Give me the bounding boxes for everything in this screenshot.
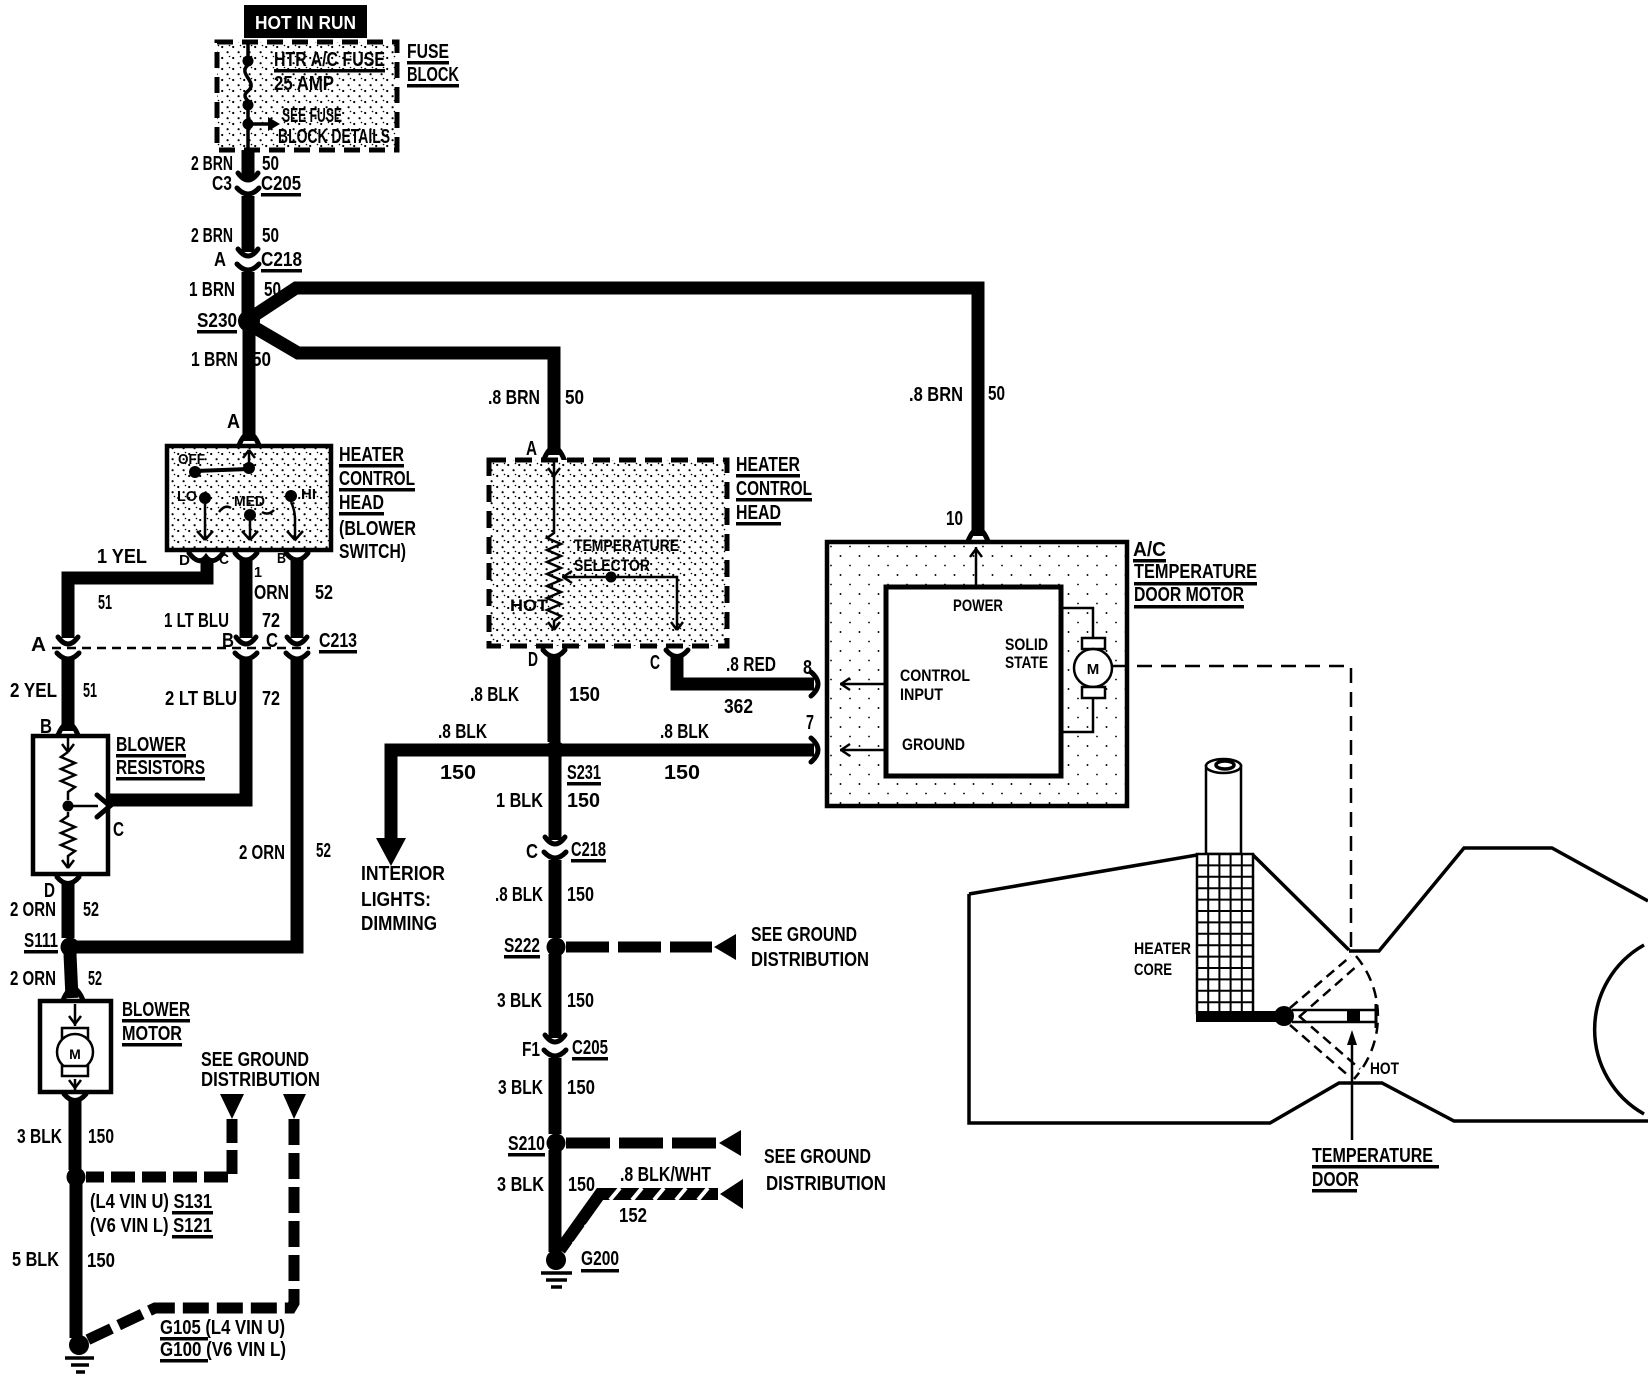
blower switch terminal B cup [277,550,308,567]
svg-text:SEE GROUND: SEE GROUND [201,1049,309,1071]
svg-text:A: A [227,411,240,433]
interior lights dimming arrow [361,838,445,935]
svg-text:51: 51 [83,680,97,702]
wire 1 BLK 150 (S231 to C218) [496,757,600,840]
blower opening arc (right) [1595,945,1644,1114]
svg-text:C205: C205 [572,1037,608,1059]
svg-text:C218: C218 [261,249,302,271]
svg-text:MOTOR: MOTOR [122,1023,182,1045]
HOT position arrow [1347,1030,1399,1140]
dashed ground wire (right arrow to G105/G100) [85,1119,294,1341]
svg-text:BLOCK: BLOCK [407,64,459,86]
svg-text:.8 BLK: .8 BLK [495,884,543,906]
svg-text:2 ORN: 2 ORN [239,842,285,864]
off-page arrow triangle (right) [283,1094,306,1119]
wire 3 BLK 150 (S222 to C205) [497,954,594,1038]
door motor M [1061,608,1112,732]
splice S222 [504,935,566,959]
wire .8 BLK 150 (S231 to interior lights dimming) [391,721,548,838]
svg-text:C218: C218 [571,839,606,861]
wire 3 BLK 150 (motor to S131/S121 junction) [17,1101,114,1170]
wire 52 (switch B to C213 C) [297,560,333,638]
svg-text:7: 7 [806,712,814,734]
svg-text:8: 8 [803,657,812,679]
svg-text:HOT: HOT [1370,1059,1399,1078]
svg-text:B: B [277,550,286,567]
svg-text:150: 150 [568,1174,595,1196]
svg-text:2 YEL: 2 YEL [10,680,57,702]
temperature selector resistor [510,462,679,630]
connector C205 pin F1 [522,1035,608,1061]
svg-text:C205: C205 [261,173,301,195]
svg-text:1 BLK: 1 BLK [496,790,543,812]
svg-text:150: 150 [664,762,700,784]
svg-text:A: A [526,438,537,460]
svg-text:SWITCH): SWITCH) [339,541,406,563]
ground G105/G100 [65,1317,286,1372]
wire .8 BLK 150 (C218 to S222) [495,860,594,938]
svg-text:1 YEL: 1 YEL [97,546,147,568]
wire 1 YEL 51 (switch D/C to C213 A) [31,546,207,656]
wire .8 BRN 50 branch to A/C temperature door motor [252,288,1005,544]
svg-text:25 AMP: 25 AMP [274,73,334,95]
temperature door open positions (dashed) [1290,956,1360,1077]
svg-text:50: 50 [565,387,584,409]
svg-text:2 BRN: 2 BRN [191,225,233,247]
svg-text:INTERIOR: INTERIOR [361,863,445,885]
temperature selector callout label [736,454,812,526]
svg-text:S230: S230 [197,310,237,332]
svg-text:3 BLK: 3 BLK [17,1126,62,1148]
heater core grid [1134,854,1253,1013]
svg-text:G200: G200 [581,1248,619,1270]
svg-text:DISTRIBUTION: DISTRIBUTION [751,949,869,971]
heater control head (temperature selector) dashed box [489,460,727,646]
wire 5 BLK 150 (junction to ground) [12,1184,115,1338]
heater core base bar [1196,1011,1286,1022]
svg-text:.8 BLK: .8 BLK [438,721,487,743]
A/C temperature door motor callout label [1133,539,1257,609]
fuse block callout label [407,41,459,88]
svg-text:BLOCK DETAILS: BLOCK DETAILS [278,126,390,148]
svg-text:C: C [113,819,124,841]
svg-text:C: C [266,630,278,652]
wire .8 BRN 50 branch to heater control head (temp selector) [252,326,584,462]
splice S210 [508,1133,566,1157]
blower resistors box [33,734,205,874]
svg-text:CONTROL: CONTROL [339,468,415,490]
dashed ground wire from S210 [566,1130,886,1195]
svg-text:SEE GROUND: SEE GROUND [764,1146,871,1168]
dashed ground wire (junction to left arrow) [86,1119,232,1177]
svg-text:CONTROL: CONTROL [900,666,970,685]
svg-text:DISTRIBUTION: DISTRIBUTION [201,1069,320,1091]
svg-text:5 BLK: 5 BLK [12,1249,59,1271]
svg-text:HEAD: HEAD [339,492,384,514]
svg-text:150: 150 [567,990,594,1012]
door swing arc [1354,956,1378,1079]
svg-text:52: 52 [316,840,331,862]
svg-text:M: M [69,1046,81,1062]
svg-text:HI: HI [301,486,316,503]
svg-text:3 BLK: 3 BLK [497,990,542,1012]
svg-text:D: D [528,649,538,671]
svg-text:152: 152 [619,1205,647,1227]
svg-text:50: 50 [262,153,279,175]
wire 2 ORN 52 (resistors D to S111) [10,884,99,938]
svg-text:1 LT BLU: 1 LT BLU [164,610,229,632]
svg-text:MED: MED [234,493,265,510]
svg-text:A/C: A/C [1133,539,1166,561]
pin 7 internal lead [840,744,886,756]
blower resistors elements [61,738,124,868]
blower switch (heater control head) box [167,446,331,550]
svg-text:C: C [219,551,229,568]
svg-text:G105 (L4 VIN U): G105 (L4 VIN U) [160,1317,285,1339]
splice S111 [24,930,80,957]
svg-text:150: 150 [567,1077,595,1099]
svg-text:HEATER: HEATER [1134,939,1191,958]
svg-text:CORE: CORE [1134,960,1172,979]
svg-text:72: 72 [262,688,280,710]
svg-text:150: 150 [567,790,600,812]
wire .8 BLK 150 (S231 to A/C motor pin 7) [562,712,818,784]
svg-text:362: 362 [724,696,753,718]
svg-text:TEMPERATURE: TEMPERATURE [574,536,679,555]
svg-text:2 LT BLU: 2 LT BLU [165,688,237,710]
see ground distribution labels (blower motor area) [201,1049,320,1091]
connector C213 row [52,630,357,659]
ground G200 [541,1248,619,1287]
svg-text:C: C [526,841,538,863]
svg-text:HOT: HOT [510,596,549,615]
svg-text:POWER: POWER [953,596,1003,615]
blower resistors terminal D cup [44,877,79,902]
wire 1 BRN 50 (S230 to blower switch) [191,324,271,448]
blower motor M symbol [57,1004,93,1090]
fuse block interior text [274,49,390,148]
splice S230 [197,310,260,334]
svg-text:C: C [650,652,660,674]
temperature selector wiper [562,571,683,630]
wire 2 BRN 50 (C205 to C218) [191,196,279,252]
fuse block box [217,42,397,150]
svg-text:LO: LO [177,488,197,505]
wire .8 RED 362 (to A/C motor pin 8) [677,654,818,718]
wire .8 BLK 150 (temp selector D to S231) [470,656,600,742]
svg-text:.8 BRN: .8 BRN [488,387,540,409]
wire 3 BLK 150 (S210 to G200) [497,1150,595,1252]
svg-text:GROUND: GROUND [902,735,965,754]
power feed label HOT IN RUN [244,5,367,38]
svg-text:(L4 VIN U) S131: (L4 VIN U) S131 [90,1191,212,1213]
svg-text:51: 51 [98,592,112,614]
off-page arrow triangle (left) [220,1094,244,1119]
dashed mechanical link (motor to temperature door) [1113,666,1351,948]
svg-text:TEMPERATURE: TEMPERATURE [1312,1145,1433,1167]
connector C218 pin A [214,249,302,273]
wire .8 BLK/WHT 152 (striped) [560,1164,743,1250]
wire 3 BLK 150 (C205 to S210) [498,1058,595,1134]
svg-text:S231: S231 [567,762,601,784]
svg-text:A: A [31,634,46,656]
svg-text:F1: F1 [522,1039,540,1061]
svg-text:HEATER: HEATER [736,454,800,476]
svg-text:S222: S222 [504,935,540,957]
svg-text:DOOR: DOOR [1312,1169,1359,1191]
svg-text:S111: S111 [24,930,58,952]
svg-text:HTR A/C FUSE: HTR A/C FUSE [274,49,385,71]
svg-text:TEMPERATURE: TEMPERATURE [1134,561,1257,583]
svg-text:50: 50 [252,349,271,371]
svg-text:S210: S210 [508,1133,545,1155]
svg-text:CONTROL: CONTROL [736,478,812,500]
svg-text:D: D [179,552,190,569]
svg-text:150: 150 [88,1126,114,1148]
wire 2 ORN 52 (C213 C down to S111) [74,660,331,947]
svg-text:FUSE: FUSE [407,41,449,63]
svg-text:52: 52 [83,899,99,921]
see-fuse-details arrow [250,117,280,131]
heater plenum left chamber outline [969,848,1648,1123]
svg-text:2 BRN: 2 BRN [191,153,233,175]
svg-text:(BLOWER: (BLOWER [339,518,416,540]
svg-text:DIMMING: DIMMING [361,913,437,935]
svg-text:50: 50 [988,383,1005,405]
fuse F HTR A/C 25A [243,44,254,150]
temperature selector terminal C cup [650,650,688,674]
splice S131/S121 junction [67,1168,214,1239]
svg-text:.8 BLK: .8 BLK [660,721,709,743]
svg-text:INPUT: INPUT [900,685,944,704]
svg-text:.8 BLK: .8 BLK [470,684,519,706]
svg-text:150: 150 [567,884,594,906]
svg-text:72: 72 [262,610,280,632]
svg-text:3 BLK: 3 BLK [497,1174,544,1196]
svg-text:1 BRN: 1 BRN [191,349,238,371]
A/C temperature door motor box [827,542,1127,806]
svg-text:2 ORN: 2 ORN [10,899,56,921]
svg-text:.8 BLK/WHT: .8 BLK/WHT [620,1164,711,1186]
blower switch contacts OFF LO MED HI [177,450,316,540]
svg-text:52: 52 [315,582,333,604]
svg-text:SEE GROUND: SEE GROUND [751,924,857,946]
svg-text:50: 50 [262,225,279,247]
svg-text:LIGHTS:: LIGHTS: [361,889,431,911]
wire 1 BRN 50 (C218 to S230) [189,272,281,318]
heater core inlet pipe [1206,759,1241,854]
pin 8 internal lead [840,678,886,690]
svg-text:10: 10 [946,508,963,530]
svg-text:OFF: OFF [178,451,205,468]
temperature selector terminal D cup [528,649,565,671]
svg-text:HOT IN RUN: HOT IN RUN [255,13,356,33]
svg-text:G100 (V6 VIN L): G100 (V6 VIN L) [160,1339,286,1361]
wire 1 ORN (switch MED to C213 B) [164,560,289,638]
svg-text:STATE: STATE [1005,653,1048,672]
svg-text:1: 1 [254,564,262,581]
svg-text:B: B [222,630,234,652]
svg-text:1 BRN: 1 BRN [189,279,235,301]
connector C218 pin C [526,837,606,863]
connector C205 pin C3 [212,173,301,197]
svg-text:RESISTORS: RESISTORS [116,757,205,779]
svg-text:52: 52 [88,968,102,990]
blower motor box [40,999,190,1092]
svg-text:ORN: ORN [254,582,289,604]
wire 2 LT BLU 72 (C213 to blower resistors C) [110,660,280,800]
blower motor ground exit cup [64,1094,86,1101]
temperature door pivot [1274,1006,1294,1026]
svg-text:C3: C3 [212,173,232,195]
svg-text:C213: C213 [319,630,357,652]
wire 2 ORN 52 (S111 to blower motor) [10,954,102,1003]
svg-text:M: M [1087,661,1100,678]
svg-text:.8 RED: .8 RED [726,654,776,676]
svg-text:SOLID: SOLID [1005,635,1048,654]
svg-text:BLOWER: BLOWER [122,999,190,1021]
temperature door callout label [1312,1145,1439,1193]
svg-text:A: A [214,249,226,271]
svg-text:BLOWER: BLOWER [116,734,186,756]
svg-text:150: 150 [440,762,476,784]
temperature door (closed position) [1292,1004,1376,1028]
blower switch terminals D C (exit cups) [179,551,229,569]
svg-text:HEATER: HEATER [339,444,404,466]
solid state module box [886,587,1061,776]
dashed ground wire from S222 [566,924,869,971]
svg-text:(V6 VIN L) S121: (V6 VIN L) S121 [90,1215,212,1237]
svg-text:2 ORN: 2 ORN [10,968,56,990]
wire 2 YEL 51 (C213 to blower resistors B) [10,660,97,738]
svg-text:HEAD: HEAD [736,502,781,524]
svg-text:DISTRIBUTION: DISTRIBUTION [766,1173,886,1195]
svg-text:150: 150 [569,684,600,706]
svg-text:3 BLK: 3 BLK [498,1077,543,1099]
pin 10 internal lead [970,547,982,587]
wire 2 BRN 50 (fuse to C205) [191,150,279,178]
svg-text:150: 150 [87,1250,115,1272]
blower switch callout label [339,444,416,563]
svg-text:.8 BRN: .8 BRN [909,384,963,406]
svg-text:SEE FUSE: SEE FUSE [282,105,342,127]
splice S231 [546,741,602,786]
svg-text:DOOR MOTOR: DOOR MOTOR [1134,584,1244,606]
blower switch terminal (MED output) cup [235,553,262,581]
